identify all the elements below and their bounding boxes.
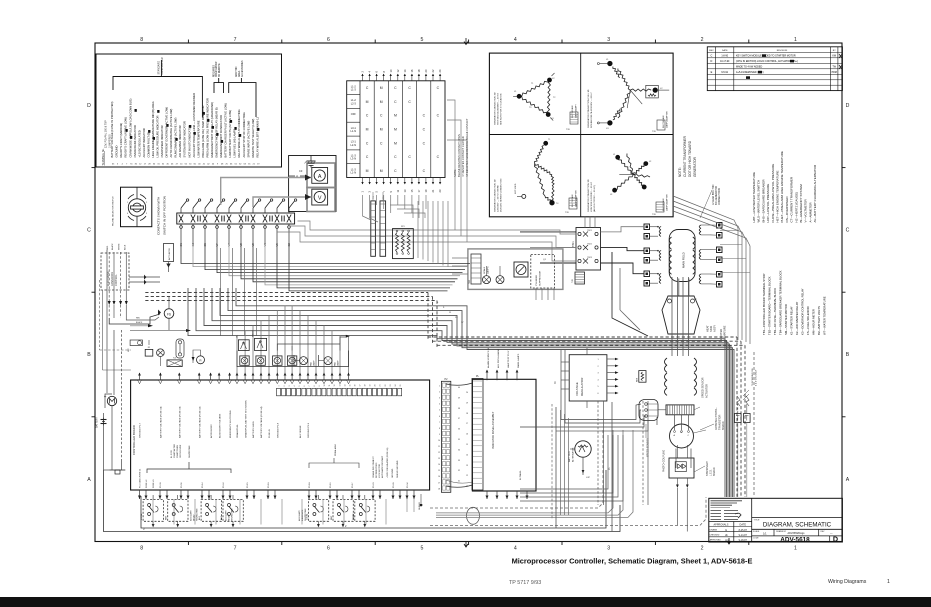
svg-text:M: M: [394, 141, 397, 145]
svg-text:LAMP: LAMP: [337, 360, 340, 366]
svg-text:PRM: PRM: [832, 72, 837, 74]
svg-text:CRANKMODE (OPPSL/LOW LOAD CONN: CRANKMODE (OPPSL/LOW LOAD CONN BUS): [128, 99, 132, 158]
terminal block TB21: [572, 228, 601, 271]
svg-text:SPARE: SPARE: [352, 513, 355, 520]
svg-text:OVERCRANK INDICATOR: OVERCRANK INDICATOR: [133, 125, 137, 157]
svg-text:25: 25: [400, 385, 402, 387]
svg-text:V—VOLTMETER: V—VOLTMETER: [804, 199, 808, 223]
svg-text:NOTE:: NOTE:: [678, 167, 682, 177]
svg-text:3: 3: [289, 386, 291, 387]
svg-text:TB1—CONTROLLER BOARD TERMINAL: TB1—CONTROLLER BOARD TERMINAL STRIP: [762, 273, 766, 335]
panel meter assembly box: [289, 156, 336, 212]
svg-text:9-18-87: 9-18-87: [739, 539, 748, 542]
svg-text:D: D: [833, 535, 838, 544]
svg-text:LOW BATTERY VOLTS (ACTIVE LOW): LOW BATTERY VOLTS (ACTIVE LOW): [228, 110, 232, 158]
zone letters right: [846, 103, 850, 483]
svg-text:SHUTDOWN: SHUTDOWN: [189, 445, 191, 458]
svg-text:6: 6: [327, 546, 330, 552]
fuel solenoid FS: [158, 296, 174, 330]
svg-text:TB21: TB21: [587, 230, 592, 232]
svg-text:1-8-90: 1-8-90: [721, 55, 728, 57]
svg-text:Microprocessor Controller, Sch: Microprocessor Controller, Schematic Dia…: [512, 557, 753, 566]
svg-text:AREA: AREA: [238, 70, 241, 77]
double wye quadrant notes: [587, 89, 669, 133]
this wiring note: [743, 368, 758, 400]
svg-text:LOCK MOTOR: LOCK MOTOR: [379, 464, 381, 478]
svg-text:BLANK DENOTES CONTACT OPEN: BLANK DENOTES CONTACT OPEN: [457, 134, 461, 177]
svg-text:9-14-87: 9-14-87: [739, 534, 748, 537]
svg-text:5: 5: [439, 410, 440, 412]
svg-text:ACCESSORY: ACCESSORY: [210, 424, 213, 438]
svg-text:1: 1: [439, 386, 440, 388]
matrix cell entries: [366, 86, 440, 173]
svg-text:M: M: [366, 100, 369, 104]
riser wires from bottom bus to mid: [552, 402, 612, 532]
meter wires: [221, 169, 312, 207]
svg-text:31: 31: [458, 481, 460, 483]
svg-text:11: 11: [466, 486, 468, 488]
svg-text:DIAGRAM, SCHEMATIC: DIAGRAM, SCHEMATIC: [763, 522, 832, 529]
oil lamp box: [237, 334, 250, 351]
svg-text:REV: REV: [709, 50, 714, 52]
svg-text:AUXILIARY STOP OF CONNECTING: AUXILIARY STOP OF CONNECTING: [242, 112, 246, 157]
svg-text:(CHG IN EDITION) LOGIC CONTROL: (CHG IN EDITION) LOGIC CONTROL, ACTUATOR…: [736, 60, 798, 63]
svg-text:RES: RES: [637, 377, 639, 382]
svg-text:22: 22: [385, 385, 387, 387]
svg-text:C3: C3: [299, 169, 303, 173]
svg-text:6: 6: [304, 386, 306, 387]
svg-text:CONTROLLER BOARD: CONTROLLER BOARD: [132, 425, 136, 455]
svg-text:HEAT: HEAT: [706, 325, 710, 332]
svg-text:BV—BATTERY VOLTS: BV—BATTERY VOLTS: [817, 306, 821, 335]
svg-text:ACCESSORIES: ACCESSORIES: [241, 60, 244, 77]
svg-text:GOVERNOR: GOVERNOR: [111, 272, 114, 286]
svg-text:IMMEDIATE: IMMEDIATE: [301, 509, 304, 521]
resistor bank box: [393, 226, 414, 259]
svg-text:20: 20: [466, 392, 468, 394]
svg-text:CROSSOVER: CROSSOVER: [180, 444, 182, 458]
svg-text:35: 35: [458, 439, 460, 441]
svg-text:4 & 6 CYL ONLY: 4 & 6 CYL ONLY: [756, 369, 758, 386]
title block outer: [709, 498, 843, 542]
svg-text:12: 12: [466, 475, 468, 477]
legend group bracket remote options: [213, 61, 223, 93]
svg-text:VOLTAGE: VOLTAGE: [575, 382, 579, 396]
legend group bracket accessories: [229, 60, 256, 117]
title block right: title and number: [752, 517, 843, 543]
horizontal gray bus lines mid: [188, 288, 734, 497]
governor wires: [129, 262, 171, 285]
svg-text:P1-34: P1-34: [407, 482, 409, 488]
svg-text:Wiring Diagrams: Wiring Diagrams: [828, 579, 867, 585]
svg-text:L1-N: L1-N: [350, 171, 356, 175]
svg-text:EMERGENCY SHUTDOWN: EMERGENCY SHUTDOWN: [230, 410, 232, 438]
svg-text:GROUND P1-8: GROUND P1-8: [278, 422, 280, 438]
svg-text:COMMON FAULT (B): COMMON FAULT (B): [146, 132, 150, 158]
svg-text:WLS—WATER LEVEL SWITCH: WLS—WATER LEVEL SWITCH: [757, 180, 761, 223]
svg-text:7: 7: [439, 422, 440, 424]
wires lamp box to TB21: [455, 230, 576, 261]
abbreviation list upper: [752, 151, 817, 222]
svg-text:V: V: [318, 196, 322, 202]
svg-text:A: A: [846, 477, 850, 483]
starter motor circle: [104, 394, 117, 408]
bracket trees inside board: [120, 444, 399, 478]
svg-text:CONTROLLER: CONTROLLER: [161, 57, 164, 74]
controller board top pin labels: [140, 400, 311, 438]
shielded cable bundle to right: [430, 352, 754, 525]
svg-text:REQUIRES: REQUIRES: [213, 65, 215, 77]
svg-text:AUX: AUX: [220, 515, 223, 520]
svg-text:SUPPRESSOR: SUPPRESSOR: [540, 270, 542, 286]
svg-text:SPARE INPUT (ACTIVE LOW): SPARE INPUT (ACTIVE LOW): [246, 121, 250, 158]
legend terminal number heading: [102, 148, 105, 165]
svg-text:10-17-90: 10-17-90: [720, 61, 730, 63]
controller board top pin stubs: [138, 373, 351, 384]
svg-text:LOW FUEL (HI) LAMPS: LOW FUEL (HI) LAMPS: [233, 129, 237, 158]
svg-text:REGULATOR: REGULATOR: [580, 377, 584, 396]
ground at ammeter: [305, 156, 316, 168]
svg-text:GENERATOR CONNECTION 1Ø: GENERATOR CONNECTION 1Ø: [494, 179, 497, 212]
svg-text:18: 18: [438, 488, 440, 490]
svg-text:ARMATURE: ARMATURE: [723, 325, 727, 340]
svg-text:L2-N: L2-N: [350, 143, 356, 147]
legend heading text: [105, 120, 112, 148]
svg-text:13: 13: [339, 385, 341, 387]
indicator panel bottom stubs: [486, 491, 529, 499]
svg-text:DRAWN BY: DRAWN BY: [776, 530, 787, 533]
svg-text:AUXILIARY: AUXILIARY: [224, 510, 227, 521]
svg-text:K2—AIR DAMPER RELAY: K2—AIR DAMPER RELAY: [795, 302, 799, 335]
water lamp box: [252, 329, 267, 350]
svg-text:M: M: [394, 114, 397, 118]
svg-text:START AFTER: START AFTER: [173, 444, 176, 458]
svg-text:GENERATOR CONNECTION 3Ø: GENERATOR CONNECTION 3Ø: [587, 179, 590, 212]
svg-text:12 LEAD BOX-TON: 12 LEAD BOX-TON: [712, 184, 715, 205]
svg-text:17: 17: [360, 385, 362, 387]
board bottom pin drop wires: [153, 499, 414, 525]
pilot lamps box: [468, 249, 563, 290]
oil pressure switch vertical: [176, 339, 184, 358]
svg-text:BLUE: BLUE: [124, 244, 126, 250]
svg-text:10: 10: [324, 385, 326, 387]
svg-text:ASSY: ASSY: [713, 325, 717, 332]
svg-text:AUX PROG ALARM: AUX PROG ALARM: [497, 349, 500, 368]
svg-text:AUXILIARY PROG ALARM — CUSTOME: AUXILIARY PROG ALARM — CUSTOMER DEFINED: [192, 93, 196, 158]
svg-text:gma: gma: [725, 539, 730, 542]
svg-text:16: 16: [354, 385, 356, 387]
svg-text:16: 16: [466, 434, 468, 436]
svg-text:A—AMMETER: A—AMMETER: [808, 202, 812, 223]
hour meter box: [128, 340, 142, 352]
double wye connection figure: [597, 59, 669, 130]
svg-text:REVISION: REVISION: [777, 50, 788, 52]
svg-text:8: 8: [140, 546, 143, 552]
matrix pin numbers top: [361, 69, 443, 81]
svg-text:A: A: [87, 477, 91, 483]
svg-text:21: 21: [380, 385, 382, 387]
svg-text:LAMP ADAPTER: LAMP ADAPTER: [666, 111, 669, 128]
svg-text:TITLE: TITLE: [754, 520, 760, 522]
svg-text:ADD/TON: ADD/TON: [235, 66, 238, 77]
svg-text:M: M: [366, 169, 369, 173]
svg-text:9: 9: [439, 434, 440, 436]
chassis ground: [104, 406, 126, 474]
svg-text:LAMP: LAMP: [313, 360, 316, 366]
svg-text:WHT/SCALE: WHT/SCALE: [571, 105, 574, 118]
governor to solenoid routing: [109, 314, 160, 324]
contacts note text: [157, 196, 167, 235]
svg-text:24: 24: [395, 385, 397, 387]
svg-text:CRANK DISCONNECT: CRANK DISCONNECT: [372, 456, 375, 478]
svg-text:M: M: [380, 86, 383, 90]
aux labels between boxes: [190, 508, 308, 521]
svg-text:12: 12: [438, 452, 440, 454]
parallel wye star figure: [610, 154, 652, 197]
svg-text:SHUTDOWN: SHUTDOWN: [231, 508, 233, 521]
wire 8 into ammeter: [289, 175, 305, 179]
svg-text:8: 8: [140, 37, 143, 43]
vertical riser bundle: [418, 201, 448, 267]
svg-text:8: 8: [314, 386, 316, 387]
svg-text:M: M: [366, 127, 369, 131]
actuator box: [164, 244, 174, 262]
svg-text:12V, PD+PAL 100 & TBP: 12V, PD+PAL 100 & TBP: [105, 120, 108, 148]
twelve lead note: [700, 184, 721, 218]
svg-text:LWT—LOW WATER TEMPERATURE: LWT—LOW WATER TEMPERATURE: [752, 172, 756, 223]
svg-text:SHUTDOWN: SHUTDOWN: [197, 508, 199, 521]
controller board outline: [131, 380, 430, 490]
svg-text:13: 13: [466, 465, 468, 467]
svg-text:TB2—STARTER BOARD—TERMINAL BLO: TB2—STARTER BOARD—TERMINAL BLOCK: [768, 276, 772, 335]
svg-text:K1—STARTER RELAY: K1—STARTER RELAY: [790, 306, 794, 335]
svg-text:18: 18: [365, 385, 367, 387]
svg-text:D: D: [846, 103, 850, 109]
generator connections box: [489, 53, 673, 217]
svg-text:HM—HOUR METER: HM—HOUR METER: [812, 309, 816, 335]
svg-text:OF REMOTE: OF REMOTE: [219, 63, 221, 77]
svg-text:6: 6: [327, 37, 330, 43]
svg-text:GROUND P1-9: GROUND P1-9: [308, 422, 310, 438]
svg-text:P1-51: P1-51: [181, 482, 183, 488]
svg-text:12: 12: [334, 385, 336, 387]
svg-text:LOP—LOW OIL PRESSURE: LOP—LOW OIL PRESSURE: [766, 184, 770, 223]
svg-text:ELECTRONIC: ELECTRONIC: [107, 270, 110, 286]
svg-text:AUXILIARY INDICATOR: AUXILIARY INDICATOR: [142, 128, 146, 157]
svg-text:ADV-5618: ADV-5618: [780, 536, 810, 543]
svg-text:6: 6: [439, 416, 440, 418]
svg-text:DIFFERENT GOVERNOR (ACTIVE LOW: DIFFERENT GOVERNOR (ACTIVE LOW): [165, 107, 169, 158]
auxiliary switch dashed boxes: [140, 495, 375, 527]
svg-text:NOT IN AUTO INDICATOR: NOT IN AUTO INDICATOR: [187, 125, 191, 157]
svg-text:RED: RED: [136, 318, 141, 320]
svg-text:+5VDC REGULATED (FUSE #6): +5VDC REGULATED (FUSE #6): [386, 447, 389, 478]
svg-text:HET—HIGH ENGINE TEMPERATURE: HET—HIGH ENGINE TEMPERATURE: [776, 170, 780, 222]
indicator panel assembly box: [472, 379, 536, 491]
svg-text:AUXILIARY: AUXILIARY: [298, 510, 301, 521]
relay circle R: [192, 350, 205, 364]
rotating photo transistor label: [700, 407, 725, 430]
svg-text:BOARD: BOARD: [713, 467, 716, 476]
svg-text:CONTACTS SHOWN WITH: CONTACTS SHOWN WITH: [157, 197, 161, 235]
svg-text:CRANK/FUEL: CRANK/FUEL: [236, 423, 239, 438]
svg-text:TB4—SAFEGUARD BREAKER TERMINAL: TB4—SAFEGUARD BREAKER TERMINAL BLOCK: [779, 270, 783, 335]
svg-text:AUTOMATIC RESTART: AUTOMATIC RESTART: [381, 455, 384, 478]
svg-text:1: 1: [794, 546, 797, 552]
svg-text:WT—WATER TEMPERATURE: WT—WATER TEMPERATURE: [823, 296, 827, 335]
svg-text:40: 40: [458, 387, 460, 389]
selector switch contact bank: [177, 199, 297, 244]
svg-text:CURRENT TRANSFORMER: CURRENT TRANSFORMER: [683, 135, 687, 177]
svg-text:GROUND: GROUND: [115, 145, 119, 157]
mid horizontals under meters: [277, 221, 467, 242]
svg-text:HIGH DELTA 240/480V — 60 HZ: HIGH DELTA 240/480V — 60 HZ: [497, 92, 500, 125]
shield cable ellipse: [419, 494, 480, 524]
zone numbers bottom: [140, 546, 797, 552]
series wye chain figure: [515, 139, 559, 205]
wire bus fan from contact bank: [181, 244, 470, 291]
svg-text:15: 15: [349, 385, 351, 387]
svg-text:33: 33: [458, 460, 460, 462]
svg-text:MADE TO 4 KW ADDED: MADE TO 4 KW ADDED: [736, 65, 762, 68]
svg-text:WATER: WATER: [252, 329, 255, 337]
svg-text:BLACK: BLACK: [136, 321, 143, 324]
svg-text:10: 10: [438, 440, 440, 442]
svg-text:4: 4: [294, 386, 296, 387]
transformer T26 block: [572, 272, 585, 284]
lamp circles row: [240, 355, 340, 366]
svg-text:AUX SENSE: AUX SENSE: [299, 425, 302, 438]
svg-text:7: 7: [309, 386, 311, 387]
svg-text:BATTERY SHDN: BATTERY SHDN: [252, 421, 255, 438]
exciter field coil groups right: [699, 223, 722, 288]
svg-text:NOT USED: NOT USED: [515, 183, 517, 194]
svg-text:4: 4: [439, 404, 440, 406]
svg-text:BATTERY VOLTAGE (FUSE #3): BATTERY VOLTAGE (FUSE #3): [179, 406, 182, 438]
svg-text:P1-15: P1-15: [247, 482, 249, 488]
controller board bottom pin stubs: [138, 490, 416, 499]
P1 horizontal terminal strip: [277, 385, 402, 396]
svg-text:39: 39: [458, 397, 460, 399]
svg-text:3: 3: [607, 37, 610, 43]
svg-text:HIGH ENGINE TEMPERATURE IND (B: HIGH ENGINE TEMPERATURE IND (B) AREA: [151, 101, 155, 157]
parallel wye quadrant notes: [587, 179, 669, 216]
indicator panel pin rows: [458, 387, 468, 488]
svg-text:L2-3: L2-3: [351, 101, 357, 105]
svg-text:18: 18: [466, 413, 468, 415]
svg-text:5: 5: [299, 386, 301, 387]
svg-text:P1-23: P1-23: [373, 482, 375, 488]
svg-text:FAN: FAN: [310, 362, 313, 366]
dashed battery feed lines: [100, 250, 131, 460]
svg-text:19: 19: [466, 402, 468, 404]
wire number labels at bus bends: [437, 302, 464, 324]
svg-text:SHIELD GROUND: SHIELD GROUND: [397, 460, 399, 478]
svg-text:P1-18: P1-18: [309, 482, 311, 488]
dashed bus turn down: [428, 293, 437, 348]
svg-text:OVERSPEED INDICATOR: OVERSPEED INDICATOR: [160, 125, 164, 157]
svg-text:P1-17: P1-17: [352, 482, 354, 488]
abbreviation list lower: [762, 270, 827, 335]
speed sensor barrel connector: [639, 400, 658, 458]
svg-text:PREALARM (LOW OIL) PRESSURE IN: PREALARM (LOW OIL) PRESSURE INDICATOR: [205, 98, 209, 157]
svg-text:TB21: TB21: [572, 241, 575, 247]
svg-text:DOT OR HIGH TOWARD: DOT OR HIGH TOWARD: [688, 140, 692, 177]
svg-text:2: 2: [439, 392, 440, 394]
svg-text:OPER GROUP: OPER GROUP: [216, 61, 218, 77]
P2 vertical connector strip: [438, 378, 451, 492]
svg-text:4: 4: [514, 37, 517, 43]
svg-text:BHS—SAFEGUARD BREAKER: BHS—SAFEGUARD BREAKER: [761, 179, 765, 223]
svg-text:M: M: [394, 127, 397, 131]
svg-text:2: 2: [284, 386, 286, 387]
indicator panel assembly label: [491, 411, 522, 480]
svg-text:20: 20: [375, 385, 377, 387]
svg-text:P1-3 GND (FUSE #1: P1-3 GND (FUSE #1: [140, 468, 142, 488]
delta connection figure (high delta): [513, 73, 556, 121]
electronic governor control box: [101, 253, 129, 290]
svg-text:APPROVED: APPROVED: [710, 539, 722, 542]
svg-text:RELAY WIRE ALERT CONN B-12: RELAY WIRE ALERT CONN B-12: [255, 116, 259, 157]
svg-text:OS—OVERSPEED: OS—OVERSPEED: [785, 196, 789, 223]
legend box controller functions: [96, 54, 282, 167]
svg-text:120/240V — 60 HZ 3 WIRE: 120/240V — 60 HZ 3 WIRE: [498, 185, 500, 212]
svg-text:MAIN FIELD: MAIN FIELD: [682, 252, 686, 268]
svg-text:LOW WYE 120/208V — 60 HZ: LOW WYE 120/208V — 60 HZ: [591, 181, 593, 212]
svg-text:SCALE: SCALE: [483, 266, 486, 274]
lamp row feeder: [277, 335, 350, 351]
main field coil: [669, 230, 695, 297]
svg-text:CT—CURRENT TRANSFORMER: CT—CURRENT TRANSFORMER: [790, 176, 794, 222]
svg-text:C: C: [846, 228, 850, 234]
terminal res block right: [735, 396, 751, 497]
horn: [157, 349, 165, 366]
svg-text:14: 14: [466, 454, 468, 456]
svg-text:ACTUATOR: ACTUATOR: [168, 248, 171, 260]
svg-text:PANEL LAMPS: PANEL LAMPS: [517, 353, 520, 368]
svg-text:5: 5: [420, 37, 423, 43]
svg-text:2: 2: [701, 546, 704, 552]
svg-text:4: 4: [514, 546, 517, 552]
svg-text:C: C: [87, 228, 91, 234]
svg-text:CRANK/FUEL BATTERY SHUTDOWN: CRANK/FUEL BATTERY SHUTDOWN: [244, 400, 247, 438]
svg-text:LOW WATER TEMPERATURE: LOW WATER TEMPERATURE: [196, 120, 200, 157]
svg-text:BATTERY VOLTAGE (FUSE #2): BATTERY VOLTAGE (FUSE #2): [198, 406, 201, 438]
svg-text:PHOTO–COUPLING: PHOTO–COUPLING: [663, 450, 666, 472]
svg-text:SCALE: SCALE: [753, 530, 760, 533]
svg-text:FS—FUEL SOLENOID: FS—FUEL SOLENOID: [806, 306, 810, 335]
svg-text:ADV2569/Dwgs: ADV2569/Dwgs: [788, 532, 806, 535]
svg-text:13: 13: [438, 458, 440, 460]
svg-text:AUXILIARY: AUXILIARY: [190, 510, 193, 521]
revision table: [707, 47, 842, 91]
matrix pin numbers bottom: [361, 178, 443, 193]
svg-text:K3—GOVERNOR CONTROL RELAY: K3—GOVERNOR CONTROL RELAY: [801, 288, 805, 335]
svg-text:ACTUATOR: ACTUATOR: [705, 384, 709, 398]
svg-text:A: A: [318, 174, 322, 180]
svg-text:BATTERY: BATTERY: [96, 417, 99, 428]
terminal strips T3 T5: [371, 192, 386, 256]
svg-text:14: 14: [438, 464, 440, 466]
svg-text:11: 11: [438, 446, 440, 448]
svg-text:B: B: [87, 352, 91, 358]
svg-text:B+ FOR: B+ FOR: [171, 450, 173, 458]
svg-text:9: 9: [319, 386, 321, 387]
svg-text:TP 5717 9/93: TP 5717 9/93: [509, 580, 541, 586]
svg-text:BATTERY CHARGER FAULT (ACTIVE: BATTERY CHARGER FAULT (ACTIVE LOW): [224, 103, 228, 157]
svg-text:7: 7: [234, 37, 237, 43]
vertical wires speed sensor to bottom: [657, 417, 691, 468]
